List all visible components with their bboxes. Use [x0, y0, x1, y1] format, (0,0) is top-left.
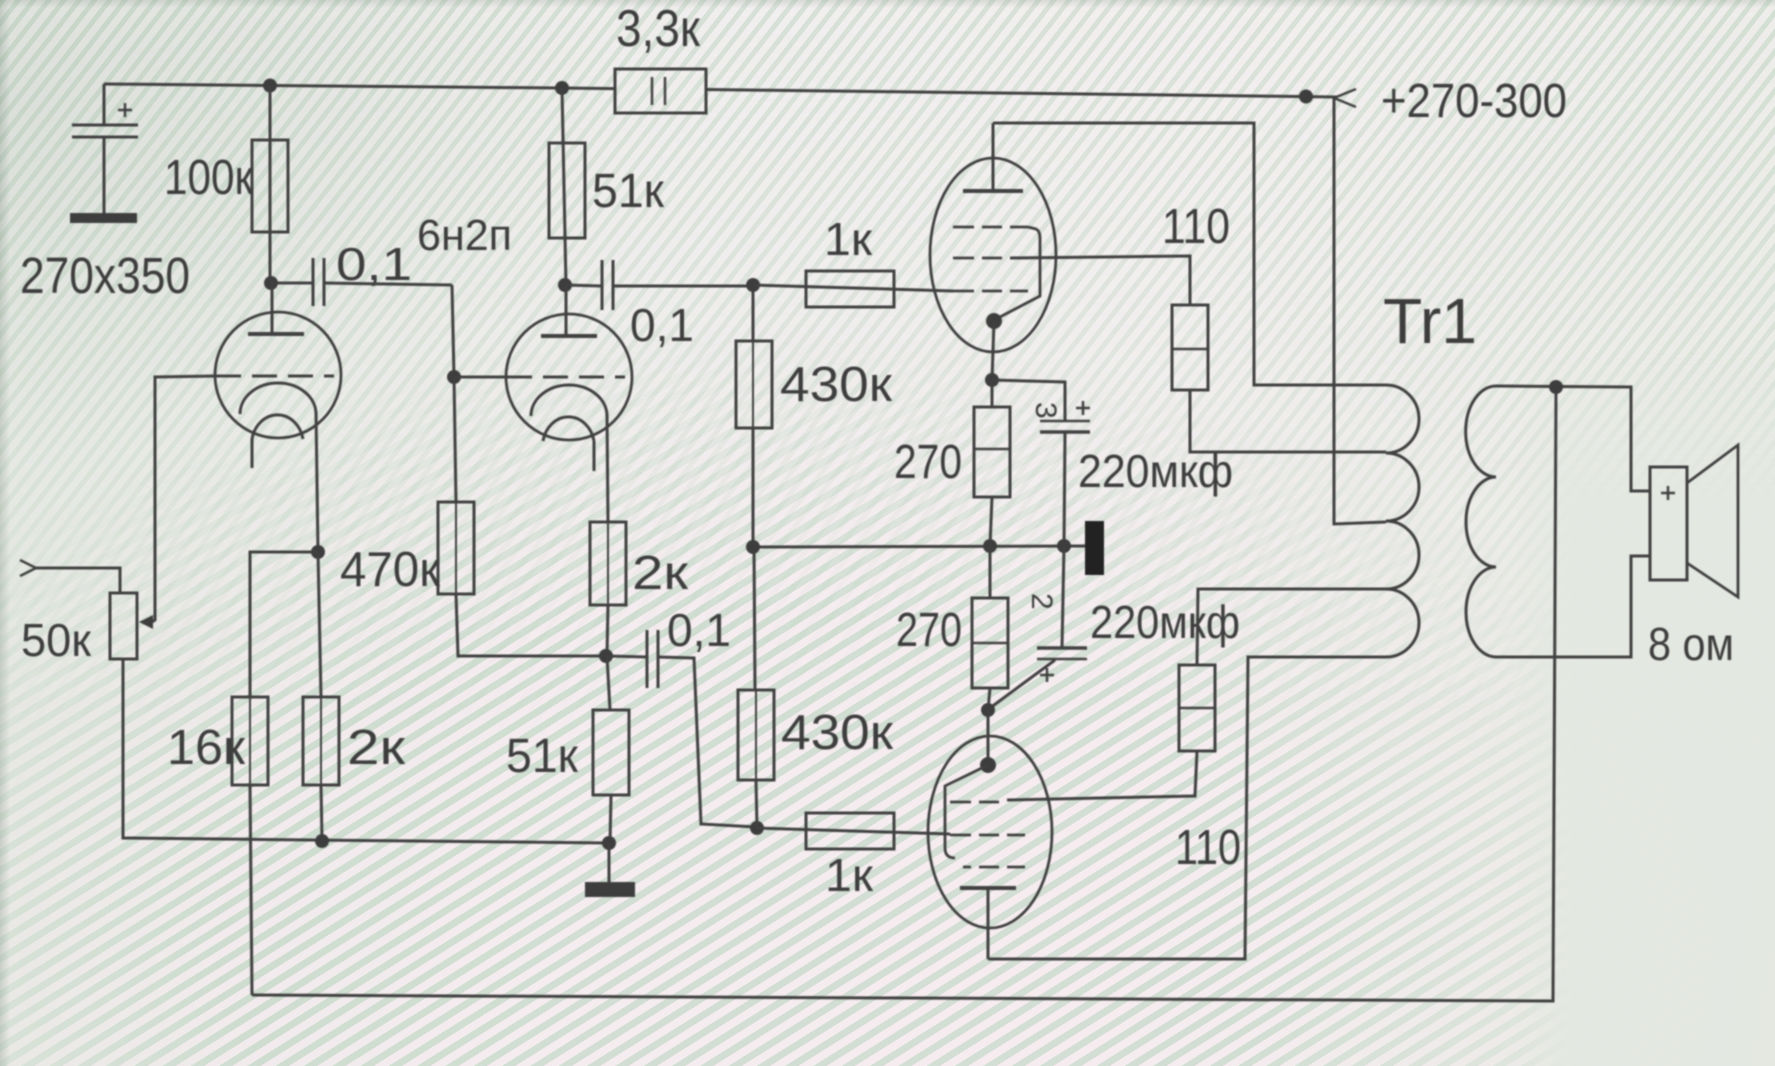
wire filter cap lead from rail [103, 84, 106, 124]
wire anode upper to transformer [993, 123, 1386, 385]
wire g2 upper to 110 [1010, 256, 1190, 305]
wire g2 lower to 110 [1007, 751, 1197, 800]
capacitor C1 0,1 coupling [271, 258, 324, 306]
wire input to pot top [34, 568, 120, 593]
svg-text:1к: 1к [825, 849, 874, 901]
potentiometer 50k wiper arrow [139, 615, 153, 629]
resistor R8 430k upper [736, 285, 772, 547]
resistor R9 430k lower [738, 547, 774, 828]
wire cathode jog to 16k [250, 552, 318, 697]
node ground bus [602, 836, 616, 850]
resistor R11 1k grid stopper lower [757, 813, 950, 849]
ground symbol [585, 843, 635, 897]
wire 16k to feedback line [250, 785, 252, 995]
svg-text:3,3к: 3,3к [616, 0, 700, 58]
svg-text:470к: 470к [340, 543, 441, 597]
wire feedback bottom line [252, 388, 1556, 1001]
node 2k ground [315, 834, 329, 848]
capacitor C4 220mkf upper [992, 380, 1090, 546]
wire pot bottom to ground bus [123, 659, 609, 843]
svg-text:2к: 2к [632, 547, 689, 600]
wire secondary top to speaker [1496, 386, 1651, 491]
svg-text:270: 270 [894, 436, 962, 489]
svg-text:270x350: 270x350 [20, 247, 190, 304]
node cathode V2 [985, 373, 999, 387]
node mid rail 270 [983, 539, 997, 553]
resistor R15 110 screen lower [1179, 589, 1386, 751]
resistor R6 2k cathode T1b [590, 522, 626, 656]
resistor R13 270 upper bias [974, 380, 1010, 546]
svg-text:220мкф: 220мкф [1078, 445, 1233, 497]
wire anode lower to transformer [988, 657, 1386, 959]
node B+ junction [1299, 90, 1313, 104]
wire mid bias rail [753, 546, 1087, 547]
node splitter top [746, 278, 760, 292]
node lower splitter [750, 821, 764, 835]
input terminal arrow [20, 560, 36, 576]
node mid rail left [746, 540, 760, 554]
svg-text:0,1: 0,1 [630, 299, 694, 351]
svg-text:51к: 51к [592, 165, 665, 218]
svg-text:8 ом: 8 ом [1648, 618, 1734, 670]
svg-text:16к: 16к [167, 721, 246, 775]
B+ terminal arrow [1334, 89, 1356, 107]
resistor R14 270 lower bias [972, 546, 1008, 710]
svg-text:3: 3 [1029, 402, 1062, 419]
node grid T1b [447, 370, 461, 384]
svg-text:110: 110 [1162, 200, 1230, 254]
resistor R1 100k [252, 85, 288, 283]
svg-text:100к: 100к [164, 151, 253, 205]
wire grid T1b [454, 376, 507, 379]
node anode T1b [558, 278, 572, 292]
pentode V2 upper output tube [930, 123, 1056, 380]
resistor R12 110 screen upper [1172, 305, 1386, 452]
svg-text:270: 270 [896, 604, 962, 657]
triode U1b 6n2p [506, 285, 632, 522]
node cathode T1a [311, 545, 325, 559]
node top junction at 51k [555, 81, 569, 95]
wire secondary bottom to speaker [1496, 556, 1651, 657]
wire B+ drop to center tap [1334, 98, 1386, 524]
capacitor C3 0,1 coupling to output stage [606, 630, 756, 827]
node cathode V3 [981, 703, 995, 717]
svg-text:51к: 51к [506, 730, 579, 783]
svg-text:0,1: 0,1 [667, 604, 731, 656]
svg-text:430к: 430к [781, 706, 894, 760]
node top-left junction at 100k [263, 79, 277, 93]
transformer Tr1 secondary [1466, 386, 1496, 657]
node anode T1a [264, 276, 278, 290]
svg-text:220мкф: 220мкф [1090, 596, 1240, 648]
wire top B+ rail [104, 84, 615, 89]
capacitor C5 220mkf lower [990, 546, 1087, 708]
transformer Tr1 primary [1386, 385, 1419, 657]
triode U1a 6n2p [215, 283, 341, 552]
capacitor C2 0,1 coupling [324, 260, 753, 377]
resistor R5 470k grid leak [438, 377, 606, 656]
resistor R2 16k feedback [232, 697, 268, 785]
resistor R10 1k grid stopper upper [753, 271, 953, 307]
svg-text:110: 110 [1175, 821, 1241, 875]
svg-text:430к: 430к [780, 358, 893, 412]
capacitor C-filter 270x350 [70, 103, 138, 223]
svg-text:Tr1: Tr1 [1383, 285, 1477, 357]
potentiometer 50k body [110, 593, 137, 659]
wire grid T1a to pot wiper [152, 376, 216, 622]
node feedback tap [1549, 380, 1563, 394]
speaker 8 ohm [1650, 445, 1738, 597]
black bar marker [1085, 521, 1104, 575]
svg-text:+270-300: +270-300 [1381, 75, 1567, 128]
pentode V3 lower output tube [928, 710, 1052, 959]
resistor R4 51k anode load T1b [549, 88, 585, 285]
svg-text:50к: 50к [21, 614, 92, 666]
resistor R7 51k to ground [593, 656, 629, 843]
resistor R16 3,3k rail [615, 69, 706, 113]
node mid rail cap [1057, 539, 1071, 553]
svg-text:1к: 1к [824, 213, 873, 265]
svg-text:6н2п: 6н2п [417, 211, 512, 260]
node cathode network T1b [599, 649, 613, 663]
resistor R3 2k cathode T1a [303, 552, 339, 841]
svg-text:2: 2 [1025, 593, 1058, 610]
svg-text:2к: 2к [347, 721, 406, 775]
